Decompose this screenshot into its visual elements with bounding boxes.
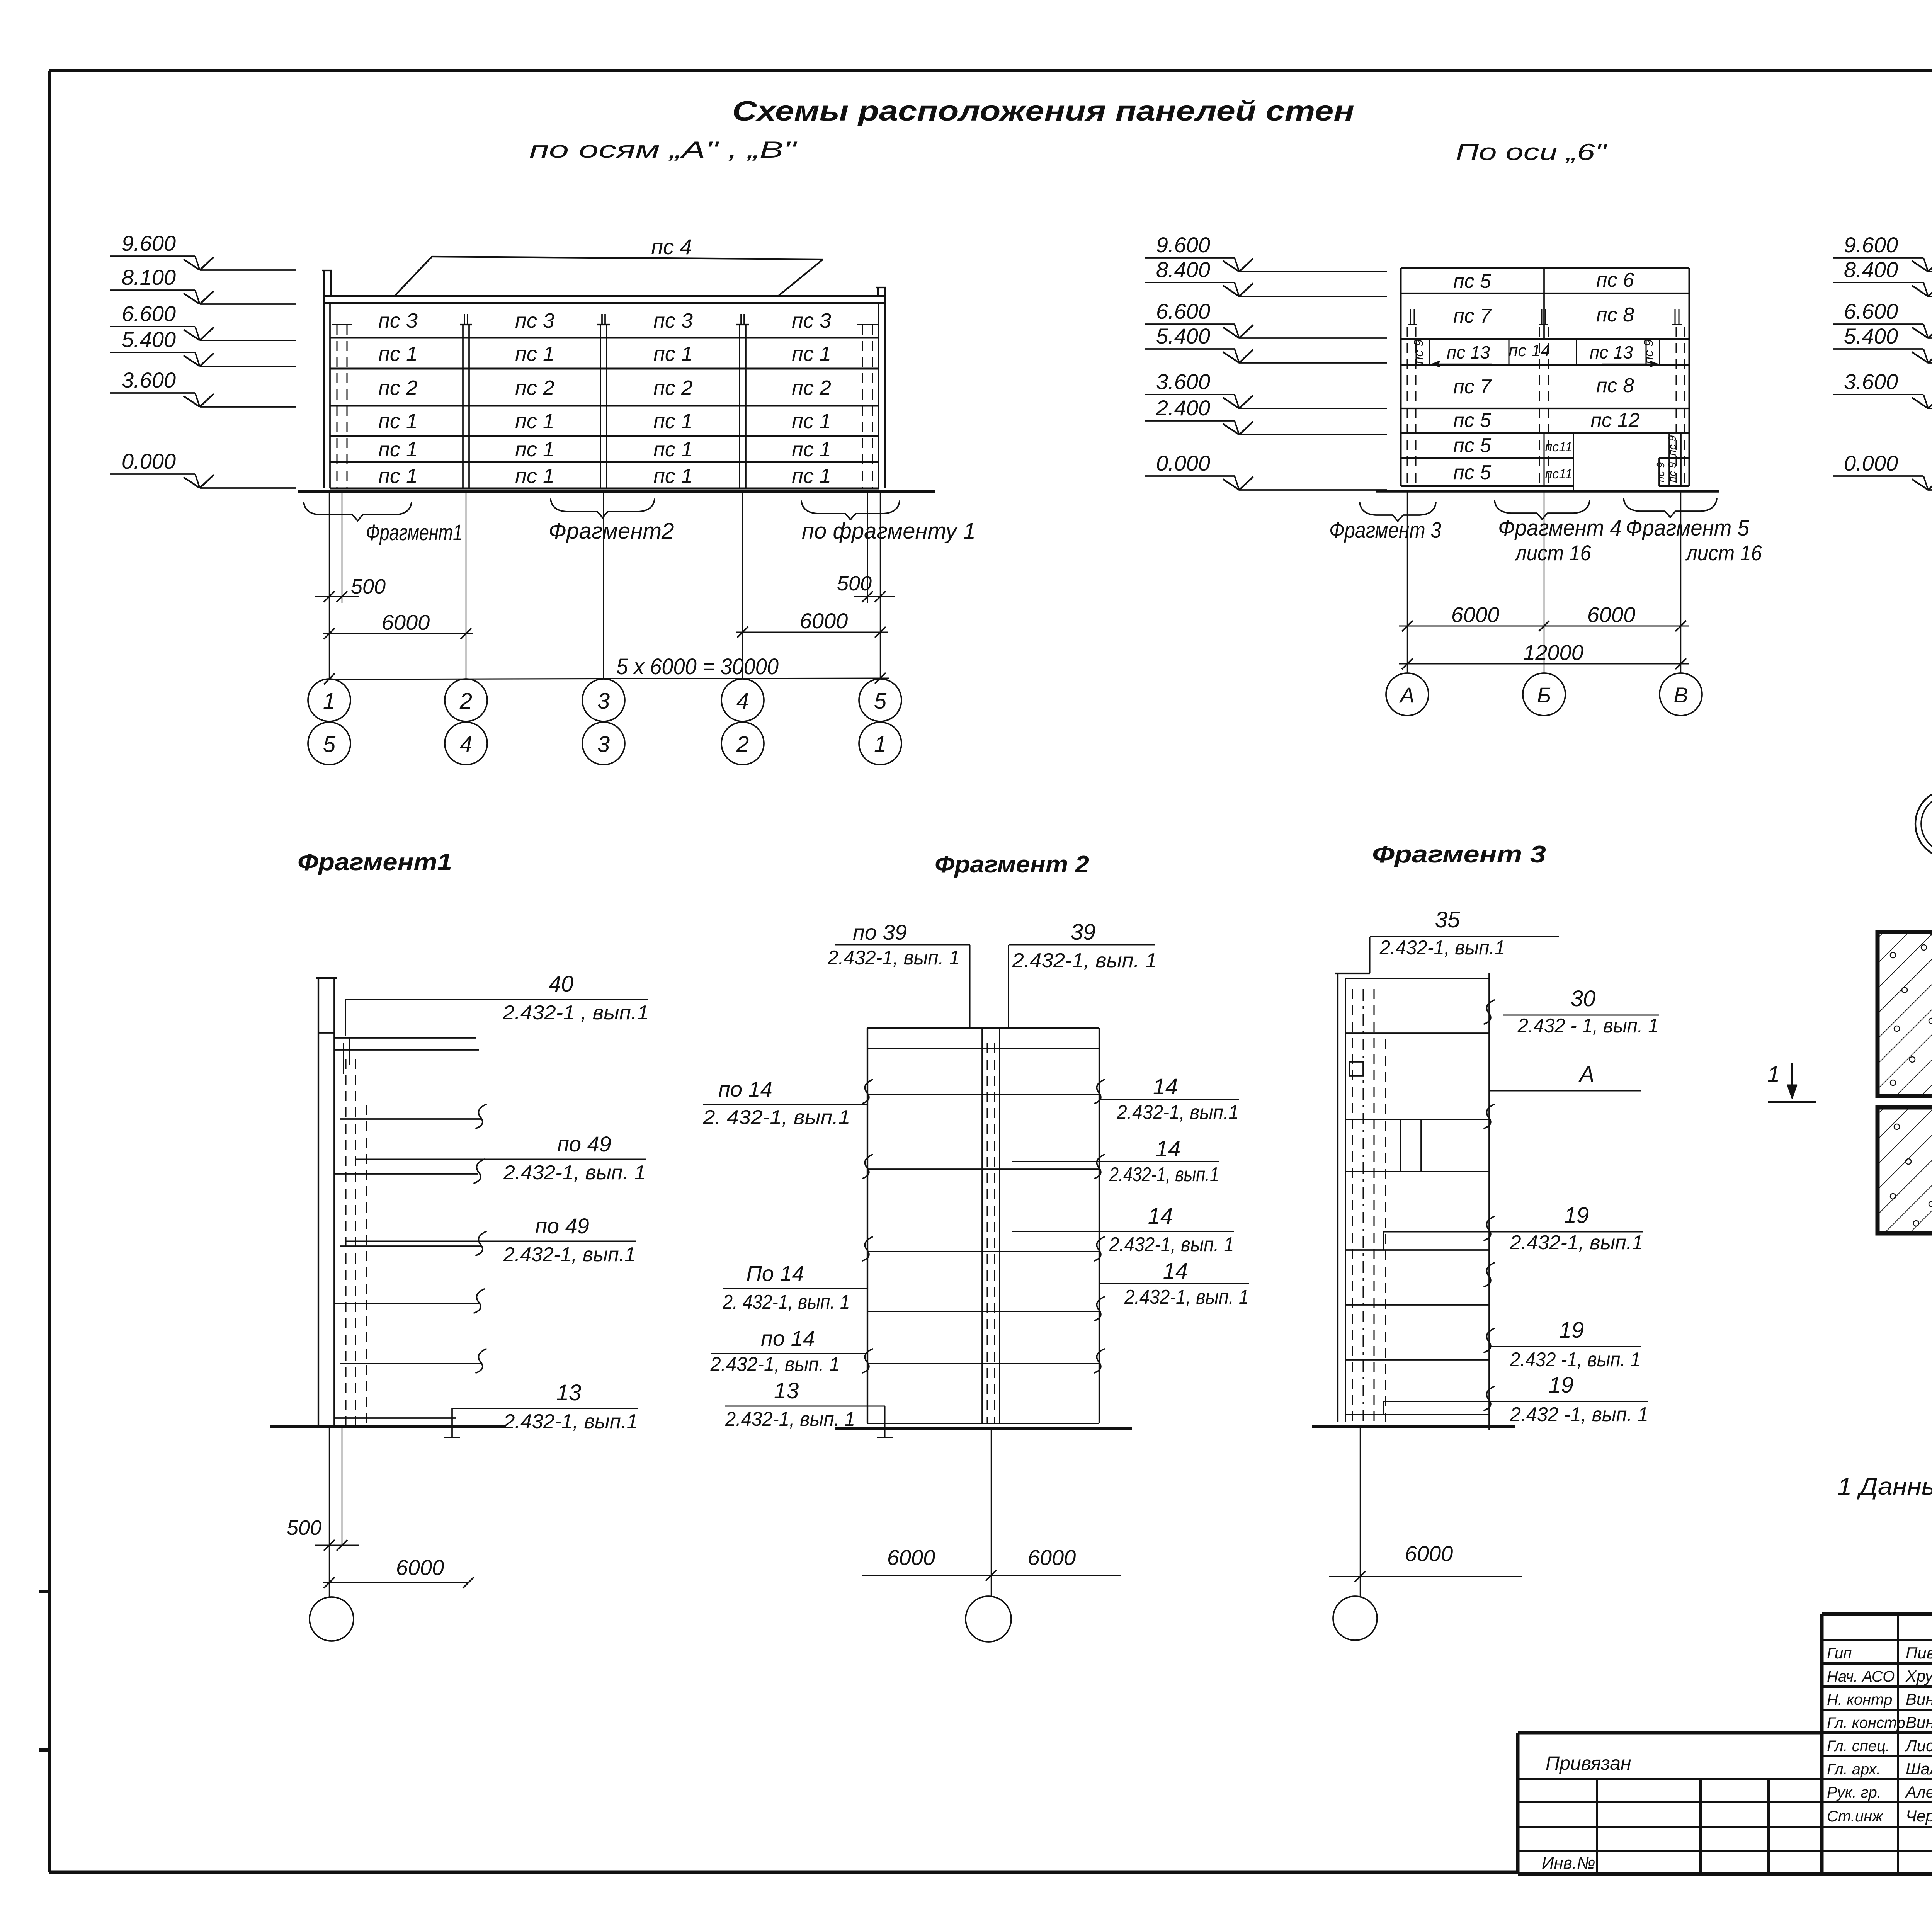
callout 14 right 4: [1099, 1259, 1249, 1308]
dimension 6000 6000 axis 6: [1399, 602, 1689, 631]
grid circle А: [1386, 673, 1429, 716]
fragment 3 small square detail: [1349, 1062, 1363, 1076]
svg-text:пс 1: пс 1: [653, 342, 693, 366]
svg-text:6000: 6000: [800, 609, 848, 633]
fragment 1 dimension 500: [287, 1516, 359, 1551]
svg-text:по 14: по 14: [718, 1077, 772, 1101]
svg-text:пс 5: пс 5: [1453, 434, 1492, 457]
fragment 3 dimension 6000: [1329, 1541, 1522, 1582]
svg-text:пс 7: пс 7: [1453, 376, 1492, 398]
elevation mark 0.000: [1145, 451, 1387, 490]
left parapet stub: [322, 270, 332, 296]
svg-text:2.432-1, вып.1: 2.432-1, вып.1: [503, 1410, 638, 1433]
elevation mark 8.400: [1833, 257, 1932, 296]
svg-text:по осям „А" , „В": по осям „А" , „В": [529, 137, 798, 163]
ground line under elevation A,B: [298, 490, 935, 493]
elevation mark 9.600: [1145, 233, 1387, 272]
svg-text:14: 14: [1153, 1074, 1178, 1099]
svg-text:40: 40: [549, 971, 574, 997]
grid circles axes 1-5 row 2: [308, 722, 901, 765]
panel labels axis 6: [1447, 269, 1640, 484]
right parapet stub: [876, 287, 886, 296]
svg-text:14: 14: [1148, 1204, 1173, 1229]
dimension 6000 right: [736, 609, 888, 638]
elevation along axes A,B — building outline: [324, 296, 885, 488]
detail A joint notch: [1878, 1078, 1932, 1122]
svg-text:1: 1: [874, 732, 886, 757]
fragment brace 5: [1624, 499, 1717, 517]
svg-text:500: 500: [287, 1516, 321, 1539]
svg-text:3: 3: [597, 689, 610, 714]
fragment 1 wall outline: [316, 978, 479, 1426]
callout 30: [1503, 986, 1659, 1037]
fragment 2 grid circle: [966, 1596, 1011, 1642]
dimension 500 left: [315, 575, 386, 602]
svg-text:5.400: 5.400: [122, 327, 176, 352]
svg-text:6000: 6000: [887, 1545, 935, 1570]
svg-text:пс 13: пс 13: [1447, 342, 1490, 362]
svg-text:3: 3: [597, 732, 610, 757]
svg-text:пс 1: пс 1: [653, 438, 693, 461]
callout по 39: [827, 920, 970, 969]
svg-text:пс 1: пс 1: [653, 410, 693, 433]
svg-text:5: 5: [323, 732, 336, 757]
elevation mark 8.100: [110, 265, 296, 304]
callout по 49 upper: [355, 1132, 646, 1184]
panel row lines: [330, 338, 879, 488]
svg-text:9.600: 9.600: [122, 231, 176, 255]
svg-text:2.432 - 1, вып. 1: 2.432 - 1, вып. 1: [1517, 1015, 1659, 1037]
svg-text:2. 432-1, вып.1: 2. 432-1, вып.1: [702, 1106, 850, 1129]
elevation mark 9.600: [1833, 233, 1932, 272]
svg-text:35: 35: [1435, 907, 1460, 932]
svg-text:2.432-1, вып. 1: 2.432-1, вып. 1: [710, 1353, 840, 1376]
fragment brace 3 under axis A: [1360, 503, 1436, 521]
svg-text:Гл. констр: Гл. констр: [1827, 1714, 1905, 1731]
elevation mark 3.600: [110, 368, 296, 407]
svg-text:пс 1: пс 1: [515, 438, 554, 461]
svg-text:2: 2: [736, 732, 749, 757]
level marks axis 1: [1833, 233, 1932, 490]
callout 35: [1370, 907, 1559, 973]
svg-text:пс 3: пс 3: [515, 309, 554, 332]
svg-text:пс 8: пс 8: [1596, 304, 1634, 326]
detail A top break line: [1878, 911, 1932, 939]
svg-text:12000: 12000: [1523, 640, 1583, 665]
dimension 12000 axis 6: [1399, 640, 1689, 669]
svg-text:пс 1: пс 1: [378, 464, 418, 488]
fragment 1 axis lines below ground: [329, 1427, 342, 1597]
callout 19 second: [1489, 1318, 1641, 1371]
fragment 1 grid circle: [310, 1597, 354, 1641]
column stubs axis 6: [1408, 309, 1682, 325]
svg-text:6000: 6000: [1028, 1545, 1076, 1570]
fragment brace 4: [1495, 501, 1590, 519]
svg-text:2.432-1, вып. 1: 2.432-1, вып. 1: [1109, 1233, 1234, 1256]
elevation mark 6.600: [110, 301, 296, 340]
detail A lower wall panel (hatched): [1878, 1107, 1932, 1233]
svg-text:пс 1: пс 1: [515, 464, 554, 488]
svg-text:Фрагмент 5: Фрагмент 5: [1626, 515, 1750, 541]
grid circles axes 1-5 row 1: [308, 679, 901, 721]
detail A bottom break line: [1878, 1218, 1932, 1242]
fragment 2 axis line below ground: [991, 1429, 992, 1597]
callout 13 fragment 2: [725, 1378, 893, 1437]
svg-text:500: 500: [351, 575, 386, 598]
fragment brace 1: [304, 502, 412, 521]
svg-text:14: 14: [1156, 1136, 1181, 1162]
elevation mark 2.400: [1145, 396, 1387, 435]
callout по 14 left upper: [702, 1077, 867, 1129]
callout по 14 left lower: [710, 1326, 867, 1376]
svg-text:Привязан: Привязан: [1546, 1752, 1631, 1774]
fragment 3 grid circle: [1333, 1596, 1377, 1640]
svg-text:Фрагмент 2: Фрагмент 2: [935, 851, 1089, 878]
fragment 2 break marks: [862, 1080, 1104, 1373]
svg-text:2.432-1, вып.1: 2.432-1, вып.1: [1109, 1163, 1219, 1186]
svg-text:пс 1: пс 1: [792, 464, 831, 488]
ground line axis 6: [1376, 490, 1719, 492]
svg-text:6000: 6000: [1587, 602, 1636, 627]
svg-text:6000: 6000: [396, 1555, 444, 1580]
svg-text:6000: 6000: [382, 610, 430, 634]
elevation along axis 6 — building outline: [1401, 268, 1689, 486]
svg-text:2: 2: [459, 689, 472, 714]
svg-text:пс 9: пс 9: [1666, 462, 1678, 483]
callout 39: [1009, 920, 1157, 972]
svg-text:2.432 -1, вып. 1: 2.432 -1, вып. 1: [1510, 1349, 1641, 1371]
svg-text:пс 9: пс 9: [1655, 462, 1667, 483]
elevation mark 8.400: [1145, 257, 1387, 296]
svg-text:Гл. спец.: Гл. спец.: [1827, 1738, 1890, 1755]
svg-text:4: 4: [736, 689, 749, 714]
svg-text:пс11: пс11: [1545, 440, 1572, 454]
dimension 500 right: [837, 572, 895, 602]
elevation mark 6.600: [1145, 299, 1387, 338]
svg-text:Фрагмент 4: Фрагмент 4: [1498, 515, 1622, 541]
fragment 1 dashed column lines: [344, 1038, 367, 1426]
svg-text:А: А: [1399, 683, 1414, 707]
svg-text:8.400: 8.400: [1156, 257, 1210, 282]
signature table rows: [1822, 1614, 1932, 1874]
svg-text:4: 4: [460, 732, 472, 757]
svg-text:Пивторак: Пивторак: [1906, 1644, 1932, 1662]
label Фрагмент 4 лист 16: [1498, 515, 1622, 565]
svg-text:А: А: [1578, 1062, 1595, 1087]
svg-text:19: 19: [1564, 1203, 1589, 1228]
пс11 cell border: [1543, 433, 1544, 486]
svg-text:6.600: 6.600: [1156, 299, 1210, 323]
callout 14 right 2: [1012, 1136, 1219, 1186]
svg-text:Ст.инж: Ст.инж: [1827, 1808, 1883, 1825]
svg-text:0.000: 0.000: [1844, 451, 1898, 475]
svg-text:пс 7: пс 7: [1453, 305, 1492, 327]
grid circle Б: [1523, 673, 1565, 716]
svg-text:пс 5: пс 5: [1453, 270, 1492, 293]
svg-text:2.432-1 , вып.1: 2.432-1 , вып.1: [502, 1002, 649, 1024]
roof slab пс4: [395, 235, 823, 296]
svg-text:19: 19: [1549, 1372, 1574, 1398]
svg-text:6000: 6000: [1405, 1541, 1453, 1566]
svg-text:пс 1: пс 1: [792, 342, 831, 366]
svg-text:8.100: 8.100: [122, 265, 176, 289]
svg-text:14: 14: [1163, 1259, 1188, 1284]
fragment 3 break marks: [1484, 1000, 1494, 1410]
svg-text:2.432-1, вып.1: 2.432-1, вып.1: [503, 1243, 636, 1266]
svg-text:пс 1: пс 1: [378, 438, 418, 461]
section cut mark 1 left: [1767, 1062, 1816, 1102]
svg-text:Фрагмент 3: Фрагмент 3: [1372, 841, 1546, 868]
svg-text:8.400: 8.400: [1844, 257, 1898, 282]
svg-text:2.400: 2.400: [1156, 396, 1210, 420]
svg-text:5.400: 5.400: [1844, 324, 1898, 348]
svg-text:6.600: 6.600: [1844, 299, 1898, 323]
fragment brace 2: [551, 499, 655, 518]
svg-text:5: 5: [874, 689, 887, 714]
svg-text:пс 1: пс 1: [792, 438, 831, 461]
callout 14 right 1: [1099, 1074, 1239, 1124]
svg-text:3.600: 3.600: [1156, 369, 1210, 394]
fragment 2 panel lines: [867, 1094, 1099, 1423]
fragment 3 small column in opening: [1400, 1119, 1421, 1172]
panel labels elevation A,B: [378, 309, 831, 488]
fragment 3 wall outline: [1335, 973, 1489, 1430]
fragment 2 dimension 6000 6000: [862, 1545, 1121, 1581]
svg-text:0.000: 0.000: [122, 449, 176, 473]
title block outline: [1518, 1614, 1932, 1874]
svg-text:по 49: по 49: [535, 1214, 589, 1238]
svg-text:лист 16: лист 16: [1685, 541, 1762, 565]
svg-text:пс 6: пс 6: [1596, 269, 1634, 291]
svg-text:2.432-1, вып. 1: 2.432-1, вып. 1: [1124, 1286, 1249, 1308]
fragment brace 3: [801, 501, 900, 520]
svg-text:пс 3: пс 3: [653, 309, 693, 332]
svg-text:5.400: 5.400: [1156, 324, 1210, 348]
svg-text:по фрагменту 1: по фрагменту 1: [802, 519, 976, 544]
left attachment table: [1518, 1779, 1822, 1874]
svg-text:9.600: 9.600: [1156, 233, 1210, 257]
panel row lines axis 6: [1401, 293, 1689, 458]
svg-text:Рук. гр.: Рук. гр.: [1827, 1784, 1881, 1801]
svg-text:по 39: по 39: [853, 920, 907, 944]
elevation mark 5.400: [1145, 324, 1387, 363]
svg-text:Б: Б: [1537, 683, 1551, 707]
fachwerk dashed columns axis 6: [1407, 327, 1685, 486]
fragment 2 wall outline: [867, 1028, 1099, 1423]
fragment 3 ground line: [1312, 1425, 1515, 1428]
svg-text:Схемы расположения панелей сте: Схемы расположения панелей стен: [732, 96, 1354, 127]
svg-text:0.000: 0.000: [1156, 451, 1210, 475]
svg-text:30: 30: [1571, 986, 1596, 1011]
svg-text:39: 39: [1071, 920, 1096, 945]
fragment 2 callout drop lines: [970, 945, 1009, 1028]
svg-text:Фрагмент2: Фрагмент2: [549, 519, 674, 544]
callout А level: [1489, 1062, 1641, 1091]
svg-text:3.600: 3.600: [1844, 369, 1898, 394]
dimension 5x6000=30000: [322, 654, 889, 684]
пс13 underline arrows axis 6: [1432, 361, 1658, 367]
svg-text:Гл. арх.: Гл. арх.: [1827, 1761, 1881, 1778]
svg-text:2.432-1, вып. 1: 2.432-1, вып. 1: [1012, 949, 1157, 972]
svg-text:Хрупало: Хрупало: [1905, 1667, 1932, 1685]
opening right bay bottom rows axis 6: [1573, 433, 1681, 491]
callout 14 right 3: [1012, 1204, 1234, 1256]
svg-text:6000: 6000: [1451, 602, 1500, 627]
fragment 1 lower right hook: [444, 1408, 460, 1437]
svg-text:пс 5: пс 5: [1453, 461, 1492, 484]
svg-text:пс 1: пс 1: [378, 342, 418, 366]
svg-text:Винклер: Винклер: [1906, 1690, 1932, 1708]
svg-text:В: В: [1673, 683, 1688, 707]
svg-text:Лисичкин: Лисичкин: [1905, 1736, 1932, 1755]
svg-text:пс 8: пс 8: [1596, 374, 1634, 397]
svg-text:пс 2: пс 2: [792, 376, 831, 400]
dimension 6000 left: [323, 610, 473, 639]
callout 19 third: [1383, 1372, 1648, 1426]
svg-text:5 x 6000 = 30000: 5 x 6000 = 30000: [616, 654, 779, 679]
fragment 2 center column: [982, 1028, 1000, 1423]
svg-text:9.600: 9.600: [1844, 233, 1898, 257]
svg-text:3.600: 3.600: [122, 368, 176, 392]
rotated пс9 labels axis 6: [1412, 339, 1678, 483]
svg-text:пс 2: пс 2: [653, 376, 693, 400]
svg-text:1 Данный лист смотри с лис: 1 Данный лист смотри с листом 17: [1837, 1473, 1932, 1500]
svg-text:2.432-1, вып. 1: 2.432-1, вып. 1: [503, 1162, 646, 1184]
callout 19 first: [1383, 1203, 1643, 1254]
callout 40: [345, 971, 649, 1036]
svg-text:6.600: 6.600: [122, 301, 176, 326]
elevation mark 9.600: [110, 231, 296, 270]
fragment 1 panel lines: [334, 1119, 481, 1418]
detail mark circle А: [1915, 789, 1932, 858]
level marks elevation A,B: [110, 231, 296, 488]
fragment 2 ground line: [835, 1427, 1132, 1430]
elevation mark 5.400: [1833, 324, 1932, 363]
svg-text:Фрагмент1: Фрагмент1: [366, 520, 463, 545]
svg-text:1: 1: [1767, 1062, 1780, 1087]
callout 13 fragment 1: [452, 1380, 638, 1433]
svg-text:2.432-1, вып.1: 2.432-1, вып.1: [1379, 937, 1505, 959]
svg-text:пс 1: пс 1: [653, 464, 693, 488]
svg-text:пс 12: пс 12: [1591, 409, 1640, 432]
elevation mark 0.000: [110, 449, 296, 488]
svg-text:2.432 -1, вып. 1: 2.432 -1, вып. 1: [1510, 1403, 1648, 1426]
axis lines below ground elevation A,B: [329, 492, 880, 679]
svg-text:2.432-1, вып.1: 2.432-1, вып.1: [1509, 1231, 1643, 1254]
svg-text:2. 432-1, вып. 1: 2. 432-1, вып. 1: [723, 1291, 850, 1313]
fragment 3 panel lines: [1345, 1033, 1489, 1415]
svg-text:13: 13: [774, 1378, 799, 1403]
svg-text:пс 1: пс 1: [378, 410, 418, 433]
fragment 1 ground line: [270, 1425, 506, 1428]
svg-text:пс 4: пс 4: [651, 235, 692, 259]
svg-text:По оси „6": По оси „6": [1456, 139, 1608, 165]
elevation mark 3.600: [1833, 369, 1932, 408]
fragment 3 axis line below ground: [1360, 1427, 1361, 1596]
svg-text:Фрагмент 3: Фрагмент 3: [1329, 518, 1441, 543]
elevation mark 3.600: [1145, 369, 1387, 408]
svg-text:пс 2: пс 2: [515, 376, 554, 400]
signature table role names: [1827, 1644, 1932, 1825]
svg-text:пс 1: пс 1: [515, 342, 554, 366]
callout по 49 lower: [345, 1214, 636, 1266]
svg-text:пс11: пс11: [1545, 467, 1572, 481]
elevation mark 5.400: [110, 327, 296, 366]
elevation mark 0.000: [1833, 451, 1932, 490]
svg-text:Фрагмент1: Фрагмент1: [298, 849, 452, 876]
svg-text:Винклер: Винклер: [1906, 1713, 1932, 1731]
svg-text:пс 3: пс 3: [792, 309, 831, 332]
grid circle В: [1660, 673, 1702, 716]
svg-text:лист 16: лист 16: [1514, 541, 1592, 565]
svg-text:по 14: по 14: [761, 1326, 815, 1350]
svg-text:Нач. АСО: Нач. АСО: [1827, 1668, 1895, 1685]
svg-text:13: 13: [556, 1380, 582, 1405]
svg-text:500: 500: [837, 572, 872, 595]
svg-text:пс 3: пс 3: [378, 309, 418, 332]
svg-text:1: 1: [323, 689, 335, 714]
svg-text:2.432-1, вып.1: 2.432-1, вып.1: [1116, 1101, 1239, 1124]
svg-text:19: 19: [1559, 1318, 1584, 1343]
svg-text:Гип: Гип: [1827, 1645, 1852, 1662]
svg-text:Шаломеев: Шаломеев: [1906, 1760, 1932, 1778]
svg-text:пс 1: пс 1: [792, 410, 831, 433]
svg-text:Алехова: Алехова: [1905, 1783, 1932, 1801]
svg-text:пс 9: пс 9: [1412, 339, 1426, 364]
svg-text:пс 1: пс 1: [515, 410, 554, 433]
fragment 1 dimension 6000: [323, 1555, 474, 1588]
svg-text:пс 2: пс 2: [378, 376, 418, 400]
svg-text:По 14: По 14: [746, 1261, 804, 1286]
fachwerk columns (dashed) near ends: [332, 325, 878, 488]
axis lines below ground axis 6: [1407, 491, 1681, 673]
interior columns at axes 2,3,4: [460, 314, 749, 488]
fragment 1 break marks: [474, 1104, 486, 1373]
svg-text:по 49: по 49: [557, 1132, 611, 1156]
panel band пс13/пс14 cell borders: [1416, 339, 1660, 365]
svg-text:пс 14: пс 14: [1509, 341, 1550, 360]
callout По 14 left middle: [723, 1261, 867, 1313]
svg-text:2.432-1, вып. 1: 2.432-1, вып. 1: [725, 1408, 855, 1430]
fragment 3 dashed column lines: [1352, 989, 1386, 1422]
svg-text:пс 9: пс 9: [1641, 339, 1656, 364]
svg-text:пс 5: пс 5: [1453, 409, 1492, 432]
svg-text:пс 9: пс 9: [1666, 435, 1678, 456]
svg-text:2.432-1, вып. 1: 2.432-1, вып. 1: [827, 947, 960, 969]
svg-text:пс 13: пс 13: [1590, 342, 1633, 362]
svg-text:Н. контр: Н. контр: [1827, 1691, 1892, 1708]
elevation mark 6.600: [1833, 299, 1932, 338]
label Фрагмент 5 лист 16: [1626, 515, 1762, 565]
level marks axis 6: [1145, 233, 1387, 490]
detail A upper wall panel (hatched): [1878, 932, 1932, 1096]
svg-text:Черкасова: Черкасова: [1906, 1807, 1932, 1825]
svg-text:Инв.№: Инв.№: [1542, 1854, 1595, 1872]
